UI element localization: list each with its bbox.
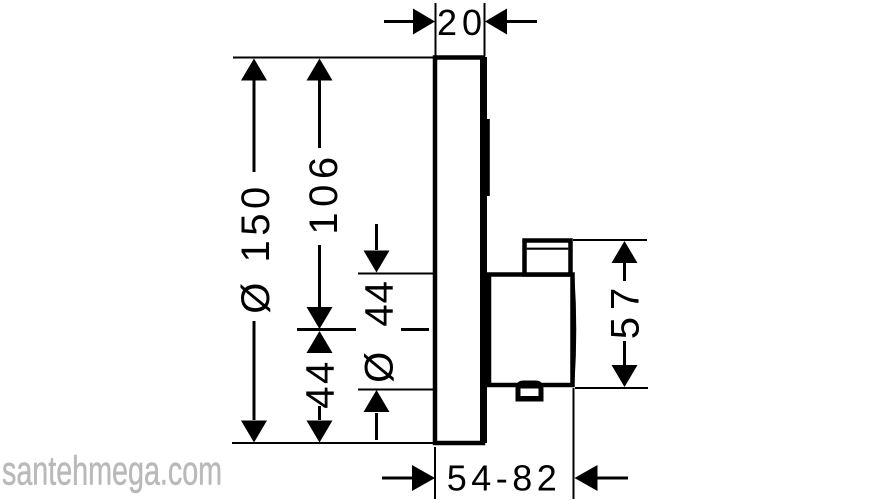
svg-text:44: 44 (299, 359, 343, 409)
svg-text:Ø 150: Ø 150 (234, 182, 278, 313)
svg-text:54-82: 54-82 (447, 458, 562, 499)
svg-text:20: 20 (437, 2, 487, 43)
svg-text:santehmega.com: santehmega.com (2, 449, 222, 494)
svg-text:106: 106 (302, 151, 346, 234)
svg-text:Ø 44: Ø 44 (358, 280, 402, 383)
svg-text:57: 57 (604, 281, 648, 340)
